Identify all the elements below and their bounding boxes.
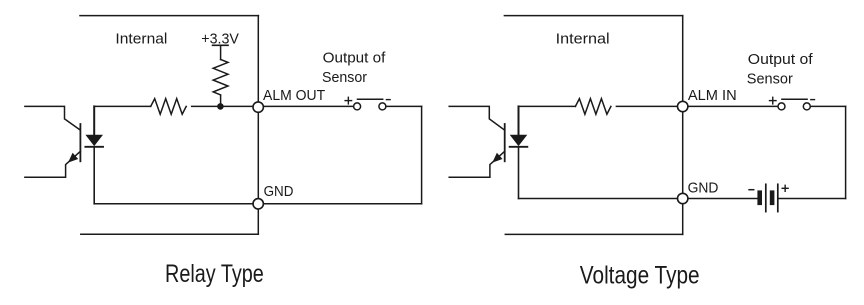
battery BT1 inner negative plate (thick short) <box>770 190 775 205</box>
wire: sensor loop right edge (right circuit) <box>845 106 847 198</box>
resistor (series, horizontal, right circuit) <box>575 99 611 115</box>
label - (switch polarity) <box>386 99 390 101</box>
switch SW2 right contact <box>803 103 810 110</box>
wire: internal ground rail (right circuit) <box>519 198 678 200</box>
switch SW2 left contact <box>778 103 785 110</box>
wire: switch to right side of loop <box>810 105 845 107</box>
wire: external collector lead into phototransistor Q2 <box>449 106 504 129</box>
label + (battery positive) <box>782 185 788 191</box>
wire: top rail from LED anode to series resistor <box>94 105 151 107</box>
diode D1 cathode bar <box>85 146 103 148</box>
internal box right edge (left circuit) <box>257 16 259 235</box>
terminal ALM OUT (open circle) <box>253 102 263 112</box>
svg-text:ALM OUT: ALM OUT <box>263 87 325 104</box>
svg-text:ALM IN: ALM IN <box>688 87 737 104</box>
svg-text:GND: GND <box>688 179 719 196</box>
transistor Q2 base bar (phototransistor of optocoupler) <box>504 124 506 161</box>
terminal ALM IN (open circle) <box>678 101 688 111</box>
wire: battery to GND terminal <box>688 198 757 200</box>
wire: emitter lead of phototransistor Q2 to external <box>449 151 505 177</box>
internal box top edge (left circuit) <box>80 15 258 17</box>
transistor Q1 base bar (phototransistor of optocoupler) <box>79 124 81 161</box>
battery BT1 negative plate (outer, thick short) <box>757 190 762 205</box>
wire: top rail from LED anode to series resistor <box>519 105 576 107</box>
switch SW1 blade <box>358 98 383 100</box>
diode D2 cathode bar <box>510 146 528 148</box>
transistor Q1 emitter arrow <box>68 153 78 163</box>
svg-text:Voltage Type: Voltage Type <box>580 262 700 290</box>
label - (switch polarity, right circuit) <box>811 99 815 101</box>
resistor (series, horizontal) <box>151 99 187 115</box>
wire: series resistor to ALM OUT terminal <box>192 105 254 107</box>
resistor (pull-up, vertical) <box>213 60 228 95</box>
internal box right edge (right circuit) <box>682 16 684 235</box>
supply rail bar under +3.3V label <box>213 44 228 46</box>
wire: LED anode from top rail down (optocoupler D1) <box>93 106 95 134</box>
wire: sensor loop bottom back to GND <box>263 203 421 205</box>
wire: internal ground rail <box>94 203 253 205</box>
wire: switch to right side of loop <box>386 105 422 107</box>
diode D1 (optocoupler LED) triangle <box>85 135 103 146</box>
internal box bottom edge (left circuit) <box>81 233 258 235</box>
wire: pull-up resistor to output node <box>220 95 222 106</box>
wire: loop bottom from right edge to battery <box>778 198 846 200</box>
wire: sensor loop right edge <box>421 106 423 203</box>
switch SW1 right contact <box>379 103 386 110</box>
label - (battery negative) <box>749 189 754 191</box>
battery BT1 inner positive plate (long) <box>765 184 767 211</box>
svg-text:Relay Type: Relay Type <box>165 260 264 288</box>
switch SW2 blade <box>782 98 807 100</box>
wire: LED anode from top rail down (optocoupler D2) <box>518 106 520 134</box>
svg-text:Internal: Internal <box>556 31 610 48</box>
internal box bottom edge (right circuit) <box>505 233 682 235</box>
junction dot: pull-up meets output rail <box>217 103 224 110</box>
wire: LED cathode down to ground rail <box>93 147 95 204</box>
transistor Q2 emitter arrow <box>492 153 502 163</box>
wire: emitter lead of phototransistor Q1 to external <box>25 151 81 177</box>
wire: +3.3V rail to pull-up resistor <box>220 45 222 59</box>
wire: external collector lead into phototransistor Q1 <box>25 106 80 129</box>
wire: series resistor to ALM IN terminal <box>616 105 677 107</box>
svg-text:Output of: Output of <box>323 49 387 66</box>
svg-text:Sensor: Sensor <box>322 69 367 86</box>
terminal GND (open circle, left circuit) <box>253 199 263 209</box>
svg-text:Sensor: Sensor <box>747 70 793 87</box>
wire: LED cathode down to ground rail <box>518 147 520 199</box>
terminal GND (open circle, right circuit) <box>678 193 688 203</box>
wire: ALM OUT terminal to sensor switch <box>263 105 353 107</box>
svg-text:Internal: Internal <box>115 31 167 48</box>
svg-text:+3.3V: +3.3V <box>201 30 239 47</box>
label + (switch polarity) <box>345 97 352 104</box>
battery BT1 positive plate (outer, long) <box>777 184 779 211</box>
switch SW1 left contact <box>354 103 361 110</box>
wire: ALM IN terminal to sensor switch <box>688 105 778 107</box>
svg-text:GND: GND <box>264 183 294 200</box>
label + (switch polarity, right circuit) <box>770 97 777 104</box>
diode D2 (optocoupler LED) triangle <box>510 135 528 146</box>
svg-text:Output of: Output of <box>748 51 814 68</box>
internal box top edge (right circuit) <box>504 15 682 17</box>
